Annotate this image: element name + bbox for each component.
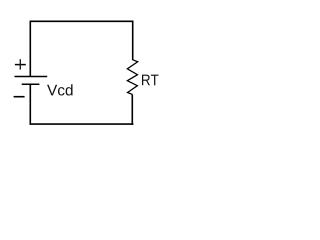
battery V1 positive plate (long) [15,76,48,78]
wire top (node A to node B) [30,20,134,22]
label Vcd [47,84,72,95]
resistor RT zigzag body [127,60,137,95]
wire left upper (top wire to battery + plate) [29,21,31,77]
wire right lower (resistor RT to bottom wire) [131,94,133,124]
polarity mark - [14,96,25,98]
wire bottom [30,123,134,125]
wire left lower (battery - plate to bottom wire) [29,84,31,125]
wire right upper (top wire to resistor RT) [132,21,134,61]
polarity mark + [15,59,26,69]
battery V1 negative plate (short) [22,83,40,85]
label RT [142,75,158,86]
